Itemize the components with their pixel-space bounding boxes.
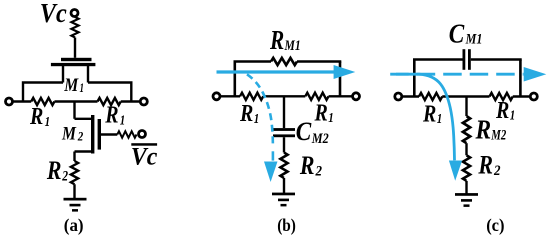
svg-text:Vc: Vc <box>131 143 158 170</box>
svg-text:R: R <box>495 98 509 124</box>
svg-text:1: 1 <box>437 112 443 127</box>
svg-text:M2: M2 <box>491 128 507 144</box>
svg-text:R: R <box>314 100 328 126</box>
svg-text:M1: M1 <box>465 31 483 47</box>
svg-text:R: R <box>475 114 491 144</box>
svg-text:1: 1 <box>510 109 516 124</box>
svg-text:1: 1 <box>120 114 126 129</box>
svg-text:2: 2 <box>493 163 501 179</box>
svg-text:R: R <box>299 151 314 180</box>
svg-text:2: 2 <box>315 163 323 179</box>
svg-text:R: R <box>29 104 43 130</box>
svg-text:Vc: Vc <box>40 0 67 28</box>
svg-text:R: R <box>239 101 253 127</box>
svg-text:R: R <box>104 103 118 129</box>
svg-text:M: M <box>61 123 77 144</box>
svg-text:M1: M1 <box>284 38 301 54</box>
svg-text:R: R <box>422 101 436 127</box>
svg-text:(c): (c) <box>486 215 504 236</box>
svg-text:1: 1 <box>254 112 259 127</box>
svg-text:R: R <box>46 156 61 185</box>
svg-text:M: M <box>63 75 79 96</box>
svg-text:1: 1 <box>80 80 85 95</box>
svg-text:2: 2 <box>77 128 84 143</box>
svg-text:2: 2 <box>61 169 68 185</box>
svg-text:(b): (b) <box>277 215 296 236</box>
svg-text:M2: M2 <box>311 131 329 147</box>
svg-text:C: C <box>449 19 465 49</box>
svg-text:C: C <box>296 117 312 146</box>
svg-text:R: R <box>269 25 284 55</box>
svg-text:1: 1 <box>328 111 334 126</box>
svg-text:1: 1 <box>45 115 51 130</box>
svg-text:R: R <box>478 151 493 180</box>
svg-text:(a): (a) <box>64 215 84 236</box>
